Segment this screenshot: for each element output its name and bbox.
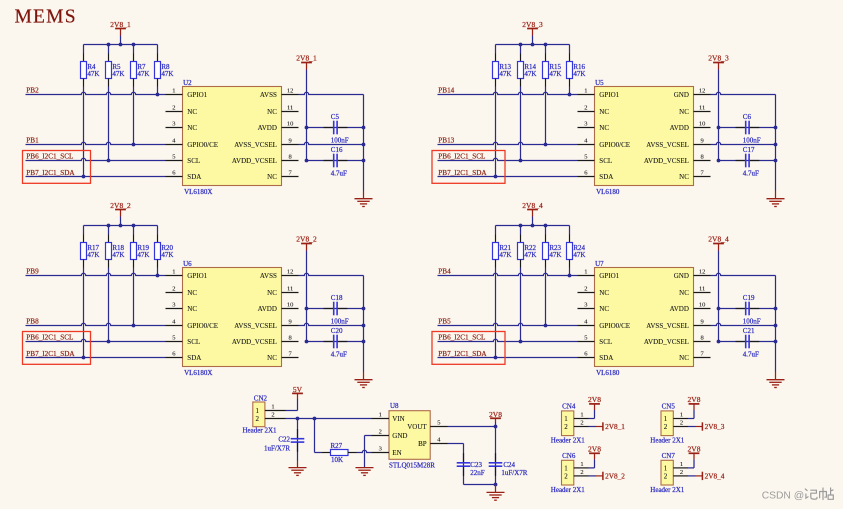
- svg-text:Header 2X1: Header 2X1: [242, 427, 277, 435]
- power symbol 2V8_3 (top): [522, 20, 543, 45]
- wire R21 to net: [495, 268, 497, 358]
- junction: [132, 143, 136, 147]
- resistor R14 47K: [518, 45, 537, 87]
- ground: [767, 191, 785, 207]
- svg-text:100nF: 100nF: [331, 137, 349, 145]
- svg-text:NC: NC: [187, 305, 197, 313]
- svg-text:2V8: 2V8: [688, 445, 701, 454]
- junction: [494, 483, 498, 487]
- wire ground bus: [775, 276, 777, 372]
- junction on rail: [519, 43, 548, 47]
- net label PB6_I2C1_SCL: [438, 153, 485, 161]
- svg-text:PB13: PB13: [438, 137, 454, 145]
- wire AVDD power drop: [718, 251, 720, 342]
- svg-text:SCL: SCL: [187, 157, 200, 165]
- wire pin2 to port 2V8_2: [589, 475, 603, 477]
- svg-text:NC: NC: [679, 173, 689, 181]
- svg-text:2: 2: [172, 105, 175, 112]
- resistor R22 47K: [518, 226, 537, 268]
- resistor R19 47K: [131, 226, 150, 268]
- pin 9 AVSS_VCSEL: [234, 319, 298, 330]
- svg-text:C5: C5: [331, 113, 340, 121]
- wire R24 to net: [569, 268, 571, 276]
- wire ground bus: [363, 276, 365, 372]
- pin 2 of CN7: [673, 469, 688, 476]
- junction: [568, 274, 572, 278]
- svg-text:PB7_I2C1_SDA: PB7_I2C1_SDA: [26, 169, 75, 177]
- svg-text:GPIO1: GPIO1: [187, 272, 207, 280]
- ground: [355, 191, 373, 207]
- svg-text:PB5: PB5: [438, 318, 451, 326]
- watermark hanzi: [805, 488, 833, 500]
- connector CN7 Header 2X1: [650, 452, 685, 494]
- junction: [107, 340, 111, 344]
- svg-text:9: 9: [288, 319, 291, 326]
- svg-text:47K: 47K: [87, 70, 99, 78]
- wire pin9 to bus: [299, 323, 364, 325]
- wire R22 to net: [520, 268, 522, 342]
- power symbol 2V8: [688, 445, 701, 460]
- IC U6 VL6180X body: [183, 260, 282, 377]
- svg-text:AVSS_VCSEL: AVSS_VCSEL: [646, 141, 689, 149]
- pin 2 of CN4: [574, 420, 589, 427]
- wire pin2 to port 2V8_1: [589, 426, 603, 428]
- pin 11 NC: [267, 105, 298, 116]
- svg-text:3: 3: [172, 302, 175, 309]
- red highlight box: [432, 332, 505, 365]
- svg-text:PB9: PB9: [26, 268, 39, 276]
- svg-text:2V8_2: 2V8_2: [110, 201, 131, 210]
- junction: [82, 175, 86, 179]
- svg-text:VL6180X: VL6180X: [184, 369, 212, 377]
- pin 5 SCL: [578, 335, 613, 346]
- wire PB14: [438, 92, 578, 94]
- wire 5V input net: [286, 418, 372, 420]
- svg-text:NC: NC: [679, 108, 689, 116]
- svg-text:STLQ015M28R: STLQ015M28R: [389, 461, 435, 469]
- resistor R17 47K: [81, 226, 100, 268]
- wire pin1 to 2V8: [589, 459, 595, 468]
- pin 1 of CN5: [673, 412, 688, 419]
- svg-text:1uF/X7R: 1uF/X7R: [501, 469, 527, 477]
- pin 1 GPIO1: [578, 88, 620, 99]
- junction: [717, 307, 721, 344]
- net label PB8: [26, 318, 39, 326]
- svg-text:PB14: PB14: [438, 87, 454, 95]
- svg-text:2V8: 2V8: [588, 445, 601, 454]
- pin 5 SCL: [578, 154, 613, 165]
- pin 1 of CN7: [673, 461, 688, 468]
- svg-text:4.7uF: 4.7uF: [743, 351, 759, 359]
- svg-text:2V8_3: 2V8_3: [708, 54, 729, 63]
- wire pin1 to 2V8: [688, 410, 694, 419]
- svg-text:U5: U5: [595, 79, 604, 87]
- svg-text:11: 11: [699, 286, 705, 293]
- svg-text:C23: C23: [470, 461, 482, 469]
- svg-text:2: 2: [379, 429, 382, 436]
- svg-text:2V8_1: 2V8_1: [605, 422, 625, 431]
- resistor R7 47K: [131, 45, 150, 87]
- svg-text:C24: C24: [503, 461, 515, 469]
- power symbol 2V8: [688, 395, 701, 410]
- net label PB13: [438, 137, 454, 145]
- svg-text:8: 8: [288, 335, 291, 342]
- svg-text:2V8: 2V8: [588, 395, 601, 404]
- svg-text:2: 2: [172, 286, 175, 293]
- wire R20 to net: [157, 268, 159, 276]
- svg-text:9: 9: [700, 319, 703, 326]
- svg-text:GPIO1: GPIO1: [187, 91, 207, 99]
- pin 3 NC: [166, 121, 198, 132]
- wire R13 to net: [495, 87, 497, 177]
- junction: [494, 356, 498, 360]
- svg-text:U2: U2: [183, 79, 192, 87]
- IC U8 STLQ015M28R body: [389, 402, 435, 469]
- svg-text:1: 1: [584, 88, 587, 95]
- svg-text:1uF/X7R: 1uF/X7R: [264, 444, 290, 452]
- svg-text:2: 2: [664, 473, 668, 481]
- svg-text:SDA: SDA: [599, 173, 613, 181]
- svg-text:PB6_I2C1_SCL: PB6_I2C1_SCL: [438, 153, 485, 161]
- svg-text:AVDD: AVDD: [670, 124, 689, 132]
- wire pin12 to bus: [711, 273, 776, 275]
- pin 1 GPIO1: [166, 269, 208, 280]
- svg-text:GPIO0/CE: GPIO0/CE: [187, 322, 218, 330]
- svg-text:2: 2: [680, 469, 683, 476]
- svg-text:47K: 47K: [137, 70, 149, 78]
- wire pull-up rail: [496, 44, 570, 46]
- pin 9 AVSS_VCSEL: [234, 138, 298, 149]
- wire pin1 to 2V8: [688, 459, 694, 468]
- IC U5 VL6180X body: [595, 79, 694, 196]
- wire SDA: [438, 176, 578, 178]
- svg-text:10: 10: [287, 302, 294, 309]
- wire pull-up rail: [84, 225, 158, 227]
- wire ground bus: [775, 95, 777, 191]
- wire PB8: [26, 323, 166, 325]
- pin 1 GPIO1: [578, 269, 620, 280]
- pin 12 AVSS: [260, 269, 299, 280]
- resistor R16 47K: [567, 45, 586, 87]
- net label PB7_I2C1_SDA: [26, 169, 75, 177]
- wire R18 to net: [108, 268, 110, 342]
- pin 12 GND: [674, 88, 711, 99]
- svg-text:8: 8: [700, 154, 703, 161]
- pin 1 of CN2: [265, 404, 286, 411]
- svg-text:3: 3: [584, 302, 587, 309]
- wire PB4: [438, 273, 578, 275]
- pin 4 GPIO0/CE: [166, 319, 219, 330]
- svg-text:GND: GND: [674, 272, 689, 280]
- net label PB6_I2C1_SCL: [438, 334, 485, 342]
- svg-text:4.7uF: 4.7uF: [331, 170, 347, 178]
- svg-text:47K: 47K: [112, 251, 124, 259]
- svg-text:12: 12: [287, 269, 294, 276]
- svg-text:2V8_2: 2V8_2: [296, 235, 317, 244]
- junction on rail: [519, 224, 548, 228]
- wire pin2 to port 2V8_4: [688, 475, 702, 477]
- connector CN4 Header 2X1: [551, 403, 586, 445]
- net label PB6_I2C1_SCL: [26, 334, 73, 342]
- pin 10 AVDD: [670, 302, 711, 313]
- wire U8 GND to ground: [365, 436, 372, 468]
- svg-text:47K: 47K: [161, 70, 173, 78]
- pin 2 NC: [166, 105, 198, 116]
- svg-text:NC: NC: [267, 108, 277, 116]
- net label PB7_I2C1_SDA: [438, 169, 487, 177]
- capacitor C5 100nF: [307, 113, 364, 144]
- capacitor C17 4.7uF: [719, 146, 776, 177]
- junction: [544, 143, 548, 147]
- svg-text:12: 12: [287, 88, 294, 95]
- wire ground bus: [363, 95, 365, 191]
- pin 9 AVSS_VCSEL: [646, 138, 710, 149]
- svg-text:5: 5: [584, 335, 587, 342]
- power symbol 5V: [292, 385, 303, 399]
- svg-text:PB6_I2C1_SCL: PB6_I2C1_SCL: [438, 334, 485, 342]
- pin 5 SCL: [166, 335, 201, 346]
- wire pin9 to bus: [299, 142, 364, 144]
- pin 6 SDA: [578, 170, 614, 181]
- wire pin9 to bus: [711, 142, 776, 144]
- capacitor C16 4.7uF: [307, 146, 364, 177]
- svg-text:SCL: SCL: [599, 157, 612, 165]
- IC U2 VL6180X body: [183, 79, 282, 196]
- junction: [305, 126, 309, 163]
- junction: [568, 93, 572, 97]
- net label PB7_I2C1_SDA: [438, 350, 487, 358]
- pin 3 NC: [578, 121, 610, 132]
- resistor R4 47K: [81, 45, 100, 87]
- junction on bus: [774, 307, 778, 344]
- pin 3 NC: [166, 302, 198, 313]
- wire SDA: [438, 357, 578, 359]
- svg-text:9: 9: [700, 138, 703, 145]
- svg-text:PB7_I2C1_SDA: PB7_I2C1_SDA: [26, 350, 75, 358]
- pin 12 GND: [674, 269, 711, 280]
- svg-text:1: 1: [584, 269, 587, 276]
- wire R14 to net: [520, 87, 522, 161]
- wire PB9: [26, 273, 166, 275]
- svg-text:C18: C18: [331, 294, 343, 302]
- svg-text:5: 5: [172, 335, 175, 342]
- pin 5 VOUT of U8: [407, 420, 447, 431]
- pin 3 EN of U8: [372, 446, 402, 457]
- svg-text:10: 10: [699, 121, 706, 128]
- svg-text:47K: 47K: [499, 70, 511, 78]
- svg-text:SCL: SCL: [187, 338, 200, 346]
- net label PB9: [26, 268, 39, 276]
- svg-text:2V8_4: 2V8_4: [708, 235, 729, 244]
- ground: [767, 372, 785, 388]
- pin 7 NC: [267, 351, 298, 362]
- svg-text:1: 1: [379, 412, 382, 419]
- wire PB2: [26, 92, 166, 94]
- ground: [289, 462, 307, 476]
- power symbol 2V8: [489, 410, 502, 422]
- svg-text:VL6180: VL6180: [596, 188, 620, 196]
- svg-text:NC: NC: [599, 305, 609, 313]
- junction on rail: [107, 43, 136, 47]
- svg-text:47K: 47K: [524, 251, 536, 259]
- svg-text:U6: U6: [183, 260, 192, 268]
- svg-text:8: 8: [700, 335, 703, 342]
- pin 4 GPIO0/CE: [578, 138, 631, 149]
- svg-text:AVDD: AVDD: [258, 124, 277, 132]
- red highlight box: [23, 332, 91, 365]
- ground: [356, 468, 374, 476]
- capacitor C19 100nF: [719, 294, 776, 325]
- svg-text:100nF: 100nF: [743, 137, 761, 145]
- svg-text:PB1: PB1: [26, 137, 39, 145]
- svg-text:GND: GND: [674, 91, 689, 99]
- power symbol 2V8_4 (right): [708, 235, 729, 251]
- wire R7 to net: [133, 87, 135, 145]
- svg-text:1: 1: [172, 269, 175, 276]
- power symbol 2V8_2 (top): [110, 201, 131, 226]
- svg-text:47K: 47K: [161, 251, 173, 259]
- svg-text:1: 1: [256, 407, 260, 415]
- connector CN6 Header 2X1: [551, 452, 586, 494]
- svg-text:4.7uF: 4.7uF: [743, 170, 759, 178]
- svg-text:2V8_4: 2V8_4: [705, 471, 725, 480]
- svg-text:NC: NC: [187, 124, 197, 132]
- wire SDA: [26, 357, 166, 359]
- svg-text:2: 2: [664, 423, 668, 431]
- svg-text:3: 3: [584, 121, 587, 128]
- capacitor C18 100nF: [307, 294, 364, 325]
- wire pull-up rail: [496, 225, 570, 227]
- title MEMS: [15, 6, 77, 27]
- junction: [717, 126, 721, 163]
- junction on rail: [107, 224, 136, 228]
- svg-text:CN4: CN4: [562, 403, 576, 411]
- svg-text:BP: BP: [418, 440, 427, 448]
- resistor R23 47K: [543, 226, 562, 268]
- pin 7 NC: [679, 170, 710, 181]
- wire R27 to EN: [357, 450, 372, 452]
- capacitor C23 22nF: [448, 444, 485, 485]
- net label PB5: [438, 318, 451, 326]
- svg-text:SDA: SDA: [187, 354, 201, 362]
- wire SCL: [26, 158, 166, 160]
- junction: [82, 356, 86, 360]
- wire pin2 to port 2V8_3: [688, 426, 702, 428]
- wire SDA: [26, 176, 166, 178]
- svg-text:GPIO0/CE: GPIO0/CE: [187, 141, 218, 149]
- capacitor C6 100nF: [719, 113, 776, 144]
- junction on bus: [362, 307, 366, 344]
- svg-text:PB2: PB2: [26, 87, 39, 95]
- svg-text:11: 11: [699, 105, 705, 112]
- svg-text:PB6_I2C1_SCL: PB6_I2C1_SCL: [26, 334, 73, 342]
- junction: [156, 93, 160, 97]
- svg-text:NC: NC: [679, 289, 689, 297]
- net label PB2: [26, 87, 39, 95]
- svg-text:AVSS: AVSS: [260, 272, 277, 280]
- svg-text:47K: 47K: [499, 251, 511, 259]
- wire R23 to net: [545, 268, 547, 326]
- svg-text:1: 1: [564, 465, 568, 473]
- svg-text:2: 2: [580, 469, 583, 476]
- svg-text:2V8_2: 2V8_2: [605, 471, 625, 480]
- svg-text:VIN: VIN: [392, 415, 404, 423]
- pin 2 of CN6: [574, 469, 589, 476]
- power port 2V8_1: [603, 422, 625, 431]
- svg-text:GND: GND: [392, 432, 407, 440]
- wire pin9 to bus: [711, 323, 776, 325]
- pin 11 NC: [679, 286, 710, 297]
- svg-text:NC: NC: [679, 354, 689, 362]
- pin 7 NC: [679, 351, 710, 362]
- pin 8 AVDD_VCSEL: [644, 154, 711, 165]
- svg-text:VOUT: VOUT: [407, 423, 427, 431]
- junction: [296, 417, 317, 421]
- svg-text:2: 2: [680, 420, 683, 427]
- svg-text:C22: C22: [278, 436, 290, 444]
- svg-text:GPIO1: GPIO1: [599, 91, 619, 99]
- svg-text:Header 2X1: Header 2X1: [650, 486, 685, 494]
- svg-text:3: 3: [172, 121, 175, 128]
- svg-text:Header 2X1: Header 2X1: [551, 486, 586, 494]
- junction: [107, 159, 111, 163]
- svg-text:47K: 47K: [137, 251, 149, 259]
- ground: [487, 485, 505, 501]
- pin 2 NC: [578, 105, 610, 116]
- junction: [519, 159, 523, 163]
- resistor R27 10K: [315, 419, 357, 465]
- svg-text:47K: 47K: [549, 251, 561, 259]
- svg-text:47K: 47K: [549, 70, 561, 78]
- junction: [305, 307, 309, 344]
- ground: [355, 372, 373, 388]
- power port 2V8_3: [702, 422, 724, 431]
- pin 2 GND of U8: [372, 429, 408, 440]
- wire pull-up rail: [84, 44, 158, 46]
- wire pin12 to bus: [711, 92, 776, 94]
- red highlight box: [432, 151, 505, 184]
- svg-text:47K: 47K: [524, 70, 536, 78]
- svg-text:2: 2: [564, 423, 568, 431]
- pin 2 of CN2: [265, 412, 286, 419]
- resistor R20 47K: [155, 226, 174, 268]
- svg-text:AVSS: AVSS: [260, 91, 277, 99]
- pin 4 BP of U8: [418, 437, 447, 448]
- svg-text:C19: C19: [743, 294, 755, 302]
- pin 1 of CN6: [574, 461, 589, 468]
- svg-text:AVDD_VCSEL: AVDD_VCSEL: [232, 157, 277, 165]
- svg-text:SDA: SDA: [187, 173, 201, 181]
- svg-text:2V8_1: 2V8_1: [110, 20, 131, 29]
- power symbol 2V8_2 (right): [296, 235, 317, 251]
- svg-text:2: 2: [564, 473, 568, 481]
- pin 6 SDA: [578, 351, 614, 362]
- svg-text:5: 5: [172, 154, 175, 161]
- wire caps to ground: [464, 484, 496, 486]
- wire R15 to net: [545, 87, 547, 145]
- resistor R21 47K: [493, 226, 512, 268]
- svg-text:10: 10: [699, 302, 706, 309]
- IC U7 VL6180X body: [595, 260, 694, 377]
- svg-text:2V8_4: 2V8_4: [522, 201, 543, 210]
- pin 4 GPIO0/CE: [578, 319, 631, 330]
- svg-text:2: 2: [580, 420, 583, 427]
- svg-text:47K: 47K: [573, 70, 585, 78]
- pin 2 NC: [578, 286, 610, 297]
- wire AVDD power drop: [718, 70, 720, 161]
- svg-text:2: 2: [584, 105, 587, 112]
- svg-text:NC: NC: [599, 108, 609, 116]
